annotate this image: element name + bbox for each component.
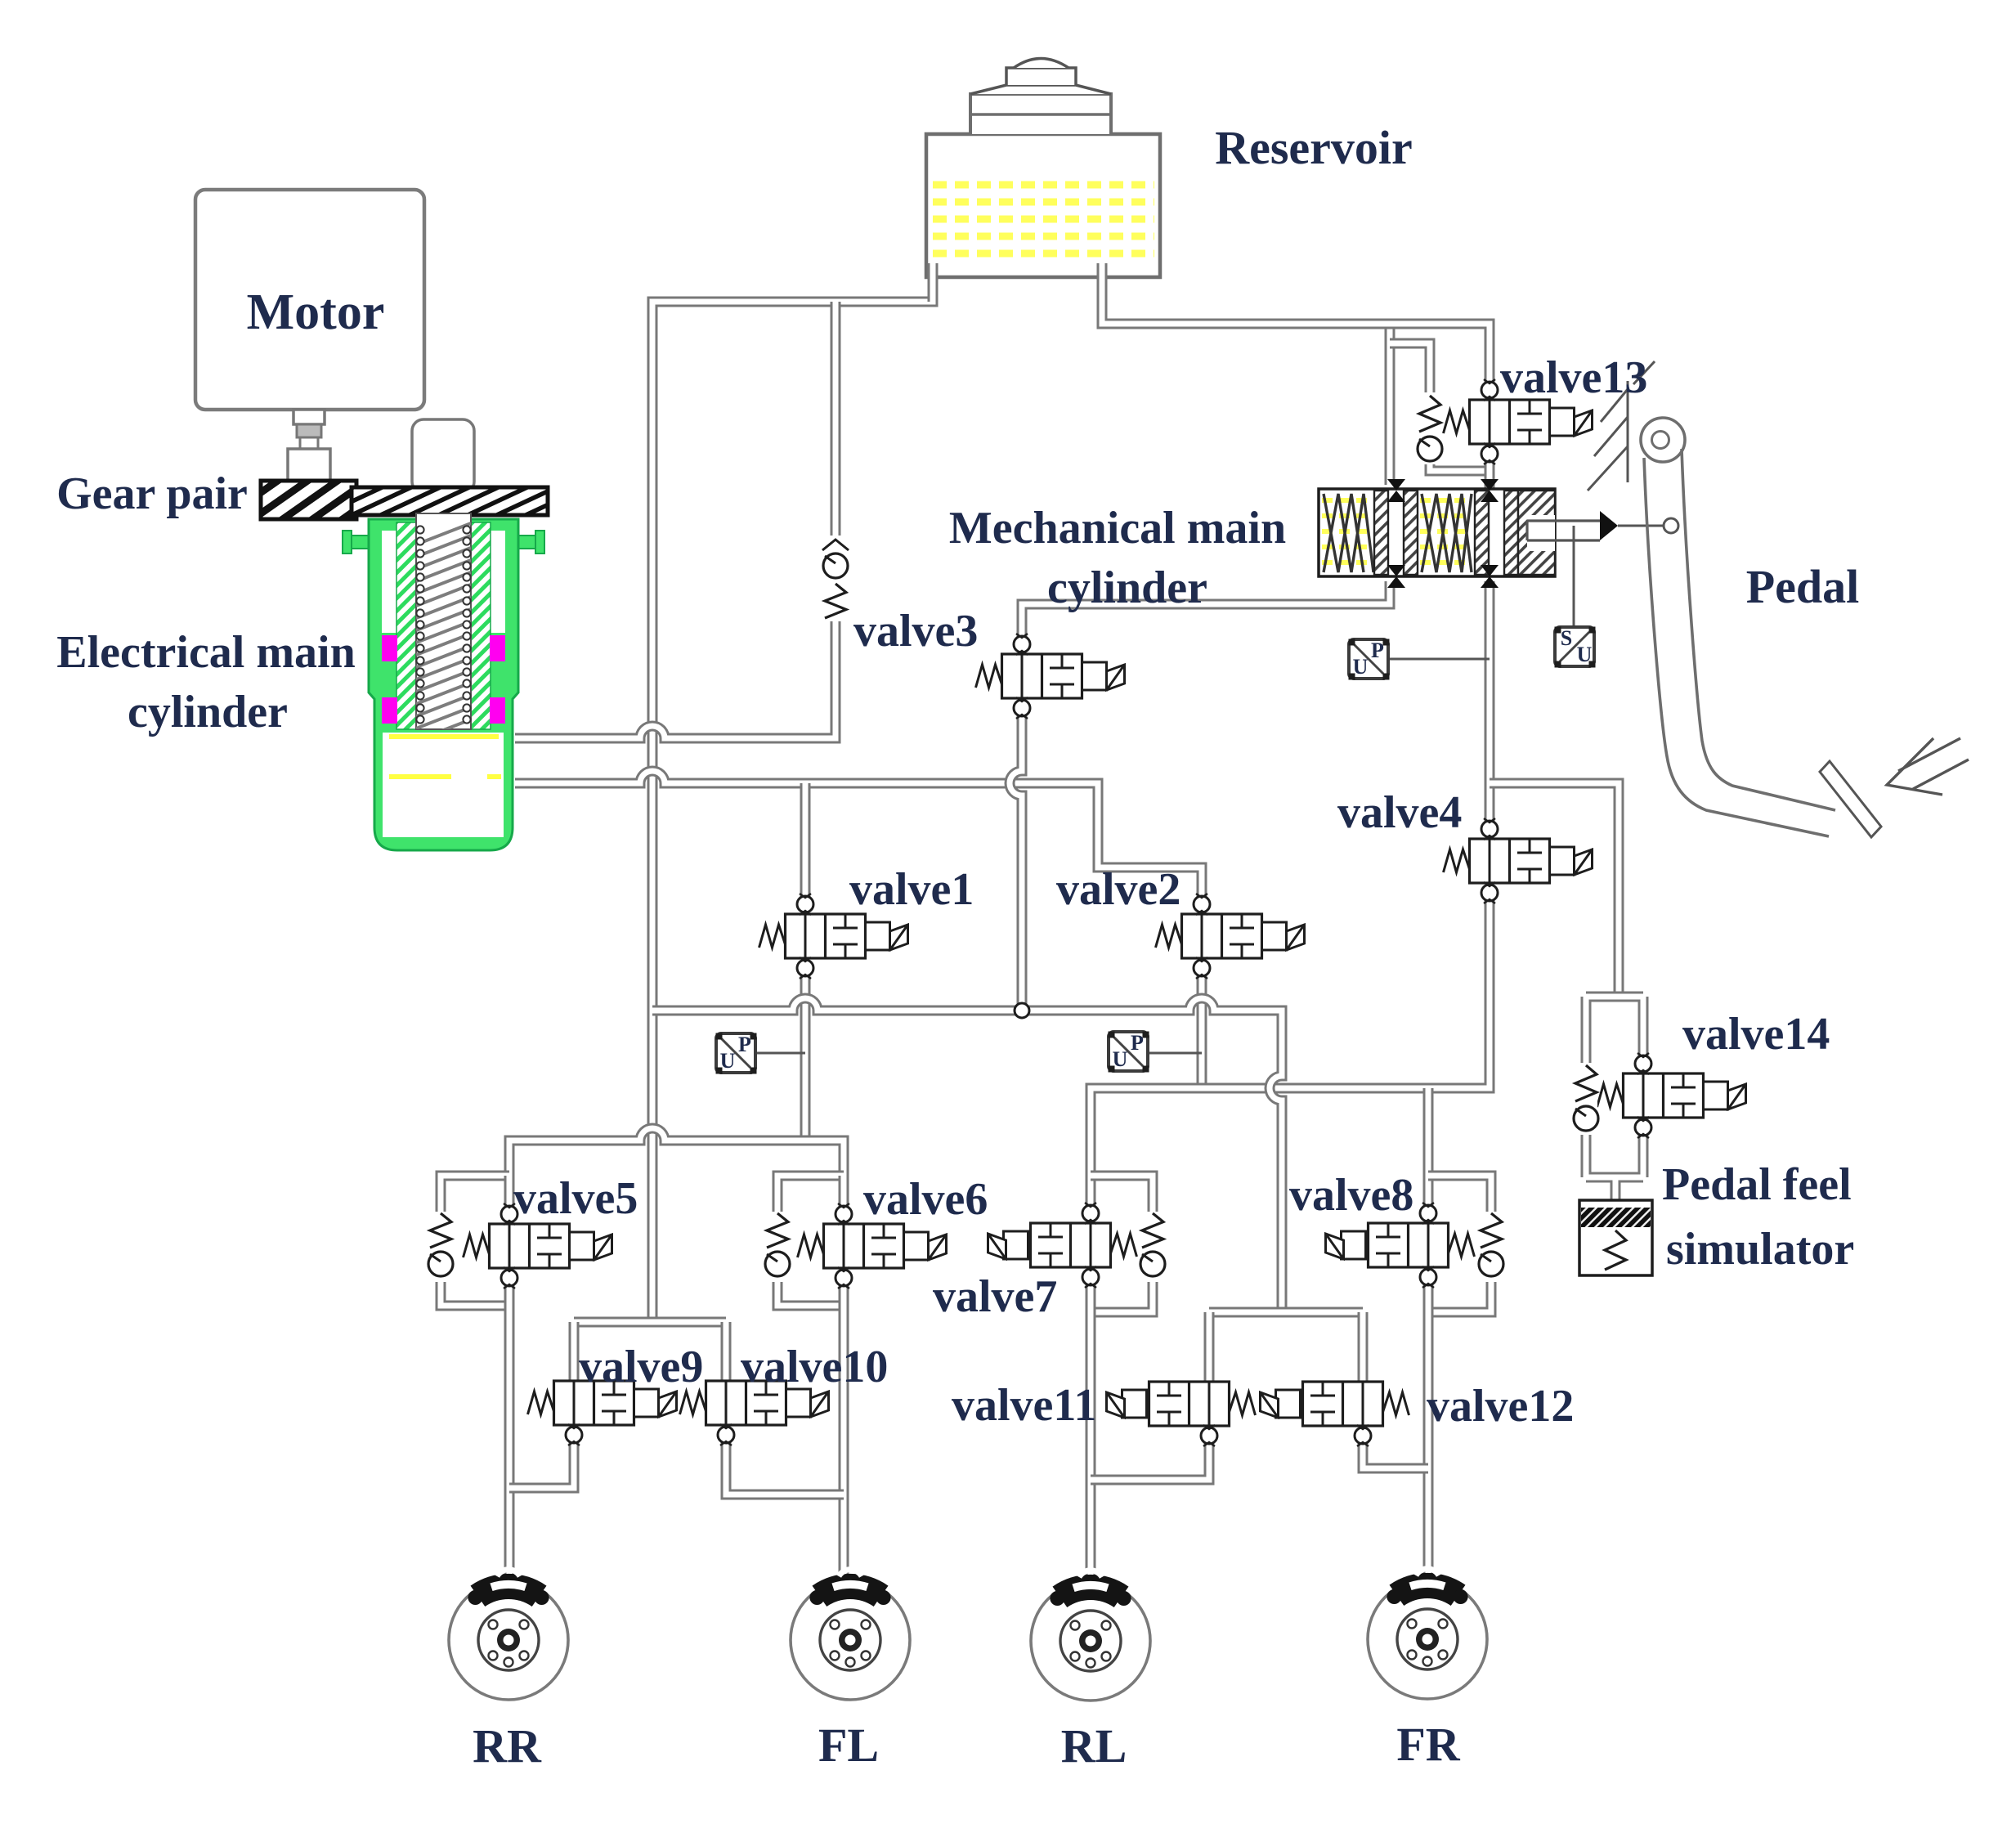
valve valve12 (dump valve, mirrored): [1261, 1382, 1409, 1446]
svg-text:Reservoir: Reservoir: [1215, 121, 1413, 174]
svg-text:valve11: valve11: [952, 1380, 1096, 1431]
wire valve7 bottom stem: [1086, 1275, 1096, 1312]
valve valve3 (solenoid 2/2): [976, 634, 1125, 719]
check valve bypass at valve14: [1574, 1063, 1598, 1135]
wire pressure sensor stub circuit 1: [755, 1052, 805, 1055]
wire valve13 bottom to chamber2 top port: [1485, 453, 1495, 489]
wire branch to valve1 top: [800, 783, 811, 904]
valve valve10 (dump valve): [680, 1381, 829, 1445]
wire reservoir middle outlet stub: [1097, 263, 1108, 311]
wire valve8 check bypass loop: [1428, 1176, 1491, 1312]
svg-text:valve10: valve10: [741, 1342, 888, 1392]
wheel brake FR: [1368, 1569, 1487, 1699]
check valve bypass at valve13: [1415, 392, 1442, 464]
svg-text:Pedal feel: Pedal feel: [1662, 1159, 1852, 1210]
svg-text:FL: FL: [818, 1719, 879, 1772]
svg-text:Electrical main: Electrical main: [56, 627, 355, 678]
pedal force arrow: [1887, 738, 1969, 795]
wire valve7 check bypass loop: [1091, 1176, 1153, 1312]
pedal pivot wall mount: [1588, 361, 1655, 491]
motor M1: [195, 190, 424, 410]
svg-text:Gear pair: Gear pair: [56, 468, 248, 519]
svg-text:valve1: valve1: [849, 864, 974, 915]
svg-text:RR: RR: [473, 1719, 542, 1772]
wire FR wheel line: [1423, 1312, 1434, 1576]
wire electrical cylinder lower port to valve2 top: [515, 771, 1202, 906]
wire valve3 top to mechanical cylinder chamber1 port: [1022, 581, 1390, 644]
motor shaft coupling: [288, 410, 330, 482]
wire stroke sensor stub (pedal): [1573, 526, 1575, 627]
wire valve9/valve10 feed bus: [574, 1317, 726, 1328]
svg-text:P: P: [738, 1033, 751, 1056]
wire branch to pedal feel simulator loop: [1490, 783, 1619, 997]
svg-text:valve8: valve8: [1289, 1170, 1413, 1221]
pressure sensor circuit 1: [716, 1033, 757, 1074]
svg-text:valve14: valve14: [1682, 1009, 1830, 1060]
wire valve14 / simulator loop: [1586, 997, 1643, 1200]
svg-text:RL: RL: [1061, 1719, 1127, 1772]
svg-text:cylinder: cylinder: [128, 687, 288, 737]
wire FL wheel line: [839, 1306, 849, 1576]
wire valve1 output down to circuit-1 bus: [800, 968, 811, 1141]
svg-text:FR: FR: [1396, 1718, 1460, 1771]
valve valve1 (solenoid 2/2): [759, 894, 908, 979]
wire return bus to valve11/12 feed: [652, 998, 1282, 1312]
wire electrical cylinder upper port to reservoir via check valve: [515, 302, 836, 738]
reservoir: [926, 59, 1160, 278]
stroke sensor S (pedal): [1555, 626, 1596, 668]
svg-text:valve6: valve6: [863, 1174, 988, 1225]
valve3 tank port junction: [1015, 1003, 1029, 1018]
wire valve3 bottom to return bus: [1010, 706, 1022, 1011]
wire reservoir left outlet to return line (valve9/10 feed): [652, 277, 933, 1322]
wheel brake RL: [1031, 1571, 1150, 1701]
screw shaft: [412, 419, 474, 493]
check valve (reservoir to electrical cylinder): [821, 536, 850, 621]
svg-text:Motor: Motor: [247, 285, 385, 340]
svg-text:valve5: valve5: [513, 1173, 638, 1224]
wire mechanical cylinder chamber1 top port to reservoir line: [1385, 324, 1396, 485]
check valve bypass at valve8: [1479, 1212, 1503, 1282]
valve valve5 (solenoid 2/2 NO): [464, 1203, 612, 1288]
wire valve11 output to RL line: [1091, 1432, 1209, 1480]
valve valve7 (solenoid 2/2 NO, mirrored): [988, 1203, 1137, 1288]
wire pressure sensor stub circuit 2: [1147, 1052, 1202, 1055]
wire drops to valve9 and valve10: [574, 1322, 726, 1381]
svg-text:Mechanical main: Mechanical main: [949, 503, 1286, 553]
wire circuit-2 bus: valve7 riser, valve8 tee, valve4 bottom: [1091, 893, 1490, 1213]
svg-text:valve12: valve12: [1427, 1381, 1574, 1432]
wire valve8 bottom stem: [1423, 1275, 1434, 1312]
reservoir fluid (yellow dashes): [933, 185, 1154, 253]
valve valve2 (solenoid 2/2): [1156, 894, 1305, 979]
valve valve13 (solenoid 2/2): [1444, 379, 1593, 464]
svg-text:Pedal: Pedal: [1746, 560, 1860, 613]
wire circuit-1 bus: valve5 and valve6 feed: [509, 1128, 844, 1176]
check valve bypass at valve6: [765, 1212, 790, 1282]
gear pair: motor pinion: [261, 481, 356, 519]
wire valve5 stems: [504, 1176, 515, 1306]
wire RR wheel line: [504, 1306, 515, 1576]
wire valve5 check bypass loop: [441, 1176, 509, 1306]
wire check valve bypass around valve13: [1390, 343, 1490, 471]
svg-text:valve2: valve2: [1056, 864, 1180, 915]
svg-text:valve13: valve13: [1500, 352, 1647, 403]
svg-text:valve4: valve4: [1337, 787, 1462, 838]
svg-text:cylinder: cylinder: [1047, 562, 1207, 613]
wire RL wheel line: [1086, 1312, 1096, 1578]
wire reservoir middle outlet to valve13 top: [1102, 277, 1490, 388]
pressure sensor circuit 2: [1109, 1031, 1149, 1073]
valve valve4 (solenoid 2/2): [1444, 818, 1593, 903]
ball screw bearing columns: [416, 526, 470, 723]
wire pressure sensor stub (mechanical cylinder): [1388, 658, 1490, 661]
svg-text:P: P: [1131, 1031, 1144, 1055]
gear pair: driven gear bar: [352, 487, 548, 515]
svg-text:P: P: [1371, 639, 1384, 662]
valve valve14 (solenoid 2/2, simulator): [1597, 1053, 1746, 1138]
check valve bypass at valve5: [428, 1212, 453, 1282]
pressure sensor (mechanical cylinder chamber): [1349, 639, 1390, 680]
wire valve9 output to RR line: [509, 1432, 574, 1488]
svg-text:valve3: valve3: [853, 606, 978, 657]
wire valve6 check bypass loop: [777, 1176, 844, 1306]
svg-text:simulator: simulator: [1666, 1224, 1854, 1275]
valve valve9 (dump valve): [528, 1381, 677, 1445]
wire chamber2 bottom port to valve4 top: [1485, 581, 1495, 829]
valve valve8 (solenoid 2/2 NO, mirrored): [1326, 1203, 1475, 1288]
wire valve12 output to FR line: [1363, 1432, 1428, 1468]
check valve bypass at valve7: [1140, 1212, 1165, 1282]
valve valve6 (solenoid 2/2 NO): [798, 1203, 947, 1288]
wire tee down to valve8 top: [1423, 1088, 1434, 1213]
wheel brake FL: [791, 1570, 910, 1700]
svg-text:valve7: valve7: [933, 1271, 1057, 1322]
pedal feel simulator: [1579, 1200, 1652, 1275]
pedal: [1641, 418, 1881, 837]
wire reservoir left outlet stub: [928, 263, 939, 302]
wire valve6 stems: [839, 1176, 849, 1306]
mechanical main cylinder: [1319, 479, 1678, 588]
valve valve11 (dump valve, mirrored): [1107, 1382, 1256, 1446]
svg-text:valve9: valve9: [579, 1342, 703, 1392]
wire valve2 output down to circuit-2 bus: [1197, 967, 1207, 1088]
electrical main cylinder: [343, 513, 544, 850]
svg-text:S: S: [1561, 626, 1572, 650]
wire valve11/valve12 feed bus: [1209, 1307, 1363, 1318]
wheel brake RR: [449, 1570, 568, 1700]
wire valve10 output to FL line: [726, 1432, 844, 1495]
wire drops to valve11 and valve12: [1209, 1312, 1363, 1381]
